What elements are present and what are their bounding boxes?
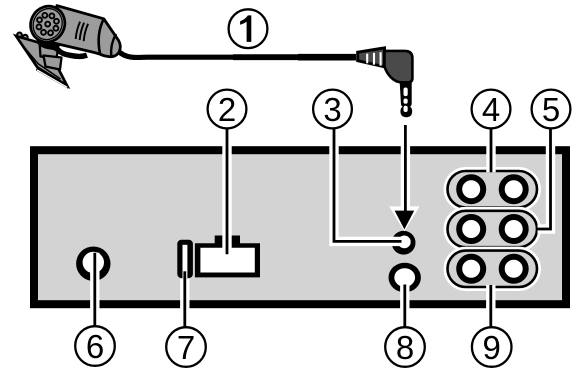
shaft slots [404, 88, 408, 97]
svg-text:8: 8 [396, 329, 414, 366]
leader line 7 [180, 271, 189, 327]
rear panel [34, 150, 566, 304]
part 7 (fuse holder) [177, 240, 193, 278]
callout label 3 [313, 90, 352, 129]
microphone (item 1) [16, 0, 120, 89]
leader line 9 [486, 285, 495, 327]
RCA pair stadium 9 (bottom) [448, 251, 538, 287]
antenna jack (6) [76, 247, 110, 281]
svg-text:7: 7 [177, 329, 195, 366]
callout label 6 [75, 326, 115, 366]
leader line 2 [222, 129, 231, 255]
body stripes [76, 22, 88, 42]
clip base plate [16, 36, 67, 86]
mic input jack (3) [392, 231, 416, 255]
connector C2 (wiring harness socket) [195, 236, 260, 278]
callout label 2 [208, 90, 247, 129]
leader line 3 [334, 129, 402, 242]
svg-text:9: 9 [483, 329, 501, 366]
arrow from plug to mic jack [389, 125, 419, 231]
mic body [50, 6, 120, 57]
callout label 4 [472, 90, 511, 129]
svg-text:3: 3 [323, 91, 341, 128]
clip clamp [40, 42, 59, 59]
callout label 1 [229, 9, 268, 48]
3.5mm right-angle plug [358, 48, 413, 117]
plate bottom thickness [36, 68, 69, 90]
aux jack (8) [389, 263, 421, 293]
clip spring tabs [17, 33, 22, 38]
svg-text:2: 2 [218, 91, 236, 128]
body taper ring [99, 19, 104, 54]
svg-text:6: 6 [86, 328, 104, 365]
callout label 5 [532, 90, 571, 129]
leader line 4 [486, 129, 495, 172]
mic cable [120, 52, 236, 57]
callout label 8 [385, 327, 425, 367]
RCA pair stadium 5 (middle) [448, 211, 538, 247]
grille holes [32, 8, 63, 39]
plug body [385, 51, 413, 82]
plate inner rim [19, 41, 61, 79]
mic face [24, 0, 71, 48]
svg-text:5: 5 [542, 91, 560, 128]
callout label 9 [472, 327, 512, 367]
svg-text:4: 4 [482, 91, 500, 128]
callout label 7 [166, 327, 206, 367]
clip hook arm over body [38, 40, 88, 57]
body back ring [111, 34, 116, 56]
strain relief [358, 48, 385, 67]
leader line 8 [400, 285, 409, 328]
RCA pair stadium 4 (top) [448, 171, 538, 207]
leader line 5 [538, 129, 551, 229]
plug shaft [400, 82, 413, 117]
leader line 6 [90, 253, 99, 327]
